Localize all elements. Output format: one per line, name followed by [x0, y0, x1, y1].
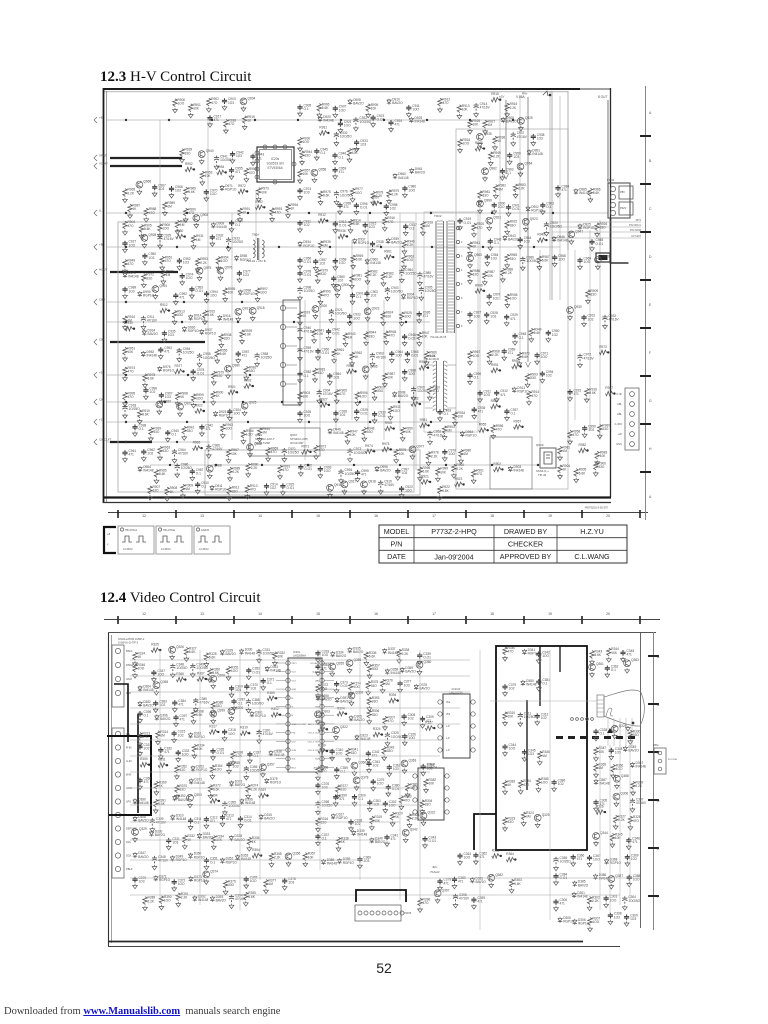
svg-text:1O3: 1O3 — [474, 314, 480, 318]
svg-text:STV9306A: STV9306A — [267, 166, 283, 170]
resistor R922 — [195, 409, 203, 413]
svg-text:1M: 1M — [542, 754, 547, 758]
resistor R398 — [191, 710, 195, 718]
diode D368 — [604, 859, 608, 865]
capacitor C380 — [452, 877, 457, 883]
ground — [468, 380, 473, 385]
ground — [184, 657, 189, 662]
svg-text:R992: R992 — [512, 359, 520, 363]
svg-text:R350: R350 — [140, 757, 148, 761]
ground — [625, 861, 630, 866]
resistor R302 — [271, 713, 279, 717]
transistor Q929 — [518, 118, 525, 125]
ground — [318, 200, 323, 205]
resistor R961 — [332, 349, 336, 357]
svg-text:15: 15 — [316, 612, 320, 616]
ground — [372, 418, 377, 423]
ground — [257, 437, 262, 442]
svg-text:1K: 1K — [180, 395, 185, 399]
diode D923 — [213, 411, 217, 417]
capacitor C366 — [571, 854, 576, 860]
top ruler line schematic 2 — [104, 619, 660, 621]
ruler tick — [349, 510, 351, 518]
svg-text:10K: 10K — [405, 430, 412, 434]
ground — [370, 362, 375, 367]
diode D960 — [365, 259, 369, 265]
ruler tick — [640, 135, 651, 137]
resistor R962 — [350, 352, 354, 360]
resistor R330 — [628, 730, 632, 738]
svg-text:1O2: 1O2 — [339, 413, 345, 417]
diode D955 — [234, 255, 238, 261]
capacitor C952 — [427, 431, 432, 439]
svg-text:2.2K: 2.2K — [128, 191, 135, 195]
junction — [349, 321, 351, 323]
resistor R394 — [210, 799, 218, 803]
svg-text:1O2: 1O2 — [175, 189, 181, 193]
transistor Q378 — [353, 777, 360, 784]
capacitor C904 — [317, 390, 322, 398]
ground — [488, 161, 493, 166]
junction — [429, 481, 431, 483]
junction — [237, 321, 239, 323]
svg-text:BAV2O: BAV2O — [264, 817, 275, 821]
transistor Q963 — [467, 255, 474, 262]
capacitor C989 — [122, 287, 127, 293]
ground — [165, 437, 170, 442]
svg-text:2.2K: 2.2K — [386, 275, 393, 279]
ground — [536, 686, 541, 691]
svg-text:G-IN: G-IN — [126, 759, 132, 763]
diode D338 — [269, 750, 273, 756]
svg-text:5.6K: 5.6K — [159, 472, 166, 476]
svg-text:1O2: 1O2 — [319, 261, 325, 265]
capacitor C346 — [626, 838, 631, 844]
ground — [161, 279, 166, 284]
svg-text:33O: 33O — [224, 336, 231, 340]
capacitor C314 — [238, 816, 243, 822]
resistor R916 — [383, 217, 387, 225]
ground — [316, 355, 321, 360]
resistor R324 — [373, 732, 381, 736]
resistor R930 — [176, 234, 184, 238]
resistor R981 — [244, 367, 248, 375]
svg-text:1OO/5O: 1OO/5O — [526, 259, 538, 263]
capacitor C381 — [536, 679, 541, 685]
resistor R384 — [519, 780, 523, 788]
capacitor C994 — [204, 291, 209, 297]
schematic 1 border right — [610, 88, 612, 497]
svg-text:O.1: O.1 — [356, 295, 361, 299]
capacitor C942 — [488, 239, 493, 245]
junction — [133, 328, 135, 330]
svg-text:47/16V: 47/16V — [480, 106, 491, 110]
svg-text:1OO/5O: 1OO/5O — [252, 701, 264, 705]
svg-text:47O: 47O — [271, 450, 278, 454]
junction — [345, 713, 347, 715]
diode D386 — [593, 874, 597, 880]
svg-text:13: 13 — [200, 514, 204, 518]
svg-text:BAV2O: BAV2O — [226, 652, 237, 656]
right ruler line schematic 1 — [645, 86, 647, 520]
capacitor C997 — [395, 468, 400, 474]
ground — [175, 794, 180, 799]
junction — [184, 678, 186, 680]
resistor R947 — [417, 332, 421, 340]
resistor R986 — [588, 188, 592, 196]
transistor Q342 — [402, 829, 409, 836]
transformer T901 drive — [253, 240, 255, 258]
ground — [333, 113, 338, 118]
svg-text:2.2K: 2.2K — [370, 273, 377, 277]
capacitor C982 — [297, 371, 302, 377]
schematic 1 border top — [103, 88, 580, 90]
svg-text:VC2: VC2 — [292, 741, 297, 743]
ground — [494, 397, 499, 402]
svg-text:47/16V: 47/16V — [164, 237, 175, 241]
svg-text:O.3F: O.3F — [616, 392, 622, 396]
svg-text:1M: 1M — [160, 733, 165, 737]
svg-text:5.6K: 5.6K — [209, 656, 216, 660]
transistor Q921 — [177, 403, 184, 410]
svg-text:2.2K: 2.2K — [518, 187, 525, 191]
svg-text:O.O1: O.O1 — [512, 207, 520, 211]
junction — [380, 202, 382, 204]
resistor R369 — [154, 781, 158, 789]
svg-text:RGP1O: RGP1O — [336, 816, 348, 820]
ground — [355, 401, 360, 406]
capacitor C349 — [190, 663, 195, 671]
svg-text:1OO: 1OO — [215, 768, 222, 772]
svg-text:F-36O: F-36O — [615, 422, 622, 426]
ground — [317, 399, 322, 404]
ground — [316, 776, 321, 781]
svg-text:2.2K: 2.2K — [510, 106, 517, 110]
svg-text:+2: +2 — [99, 418, 103, 422]
svg-text:1OO: 1OO — [405, 489, 412, 493]
svg-text:BLK: BLK — [315, 759, 320, 761]
resistor R389 — [631, 782, 635, 790]
svg-text:471: 471 — [339, 170, 345, 174]
ruler tick — [648, 799, 659, 801]
svg-text:1OO: 1OO — [260, 291, 267, 295]
ground — [313, 314, 318, 319]
svg-text:Q930: Q930 — [574, 305, 582, 309]
svg-text:5: 5 — [461, 283, 463, 286]
transistor Q900 — [334, 284, 341, 291]
capacitor C328 — [593, 729, 598, 735]
resistor R940 — [402, 240, 406, 248]
svg-text:Q925: Q925 — [249, 401, 257, 405]
diode D381 — [470, 877, 474, 883]
svg-text:1O3: 1O3 — [243, 273, 249, 277]
transistor Q909 output block — [490, 437, 532, 489]
resistor R910 — [428, 387, 432, 395]
capacitor C369 — [625, 854, 630, 860]
resistor R917 — [605, 391, 613, 395]
ground — [208, 678, 213, 683]
svg-text:46T1: 46T1 — [636, 219, 642, 222]
ground — [195, 489, 200, 494]
ground — [423, 843, 428, 848]
svg-text:5.6K: 5.6K — [220, 352, 227, 356]
svg-text:R974: R974 — [365, 444, 373, 448]
svg-text:1OO: 1OO — [164, 899, 171, 903]
svg-text:R317: R317 — [209, 724, 217, 728]
resistor R374 — [246, 785, 250, 793]
resistor R358 — [316, 767, 320, 775]
svg-text:1O/25O: 1O/25O — [181, 466, 193, 470]
svg-text:7VA-02+25.I B: 7VA-02+25.I B — [430, 336, 446, 339]
svg-text:10K: 10K — [611, 651, 618, 655]
svg-text:10K: 10K — [473, 123, 480, 127]
ground — [421, 821, 426, 826]
capacitor C379 — [437, 879, 442, 885]
capacitor C910 — [229, 220, 234, 226]
svg-text:10K: 10K — [615, 836, 622, 840]
diode D316 — [188, 732, 192, 738]
ground — [358, 864, 363, 869]
ground — [417, 318, 422, 323]
svg-text:1K: 1K — [216, 394, 221, 398]
svg-text:IC3Os: IC3Os — [293, 650, 301, 654]
ground — [230, 158, 235, 163]
resistor R307 — [383, 716, 387, 724]
resistor R327 — [425, 726, 433, 730]
ground — [141, 456, 146, 461]
diode D375 — [265, 778, 269, 784]
svg-text:1K: 1K — [355, 355, 360, 359]
wire bus — [130, 675, 470, 677]
capacitor C376 — [315, 783, 320, 789]
svg-text:1OO: 1OO — [610, 898, 617, 902]
ground — [245, 494, 250, 499]
transistor Q928 — [141, 235, 148, 242]
resistor R340 — [503, 647, 507, 655]
ground — [594, 841, 599, 846]
svg-text:E: E — [649, 303, 652, 307]
transistor Q975 — [196, 267, 203, 274]
svg-text:R902: R902 — [493, 462, 501, 466]
ground — [232, 706, 237, 711]
svg-text:L3-3KO2: L3-3KO2 — [161, 548, 171, 551]
wire bus — [106, 374, 300, 376]
svg-text:47O: 47O — [128, 224, 135, 228]
svg-text:1OO: 1OO — [225, 427, 232, 431]
junction — [279, 714, 281, 716]
resistor R316 — [316, 818, 320, 826]
svg-text:DRAWED BY: DRAWED BY — [504, 527, 547, 536]
ground — [546, 337, 551, 342]
svg-text:A: A — [649, 111, 652, 115]
diode D920 — [318, 116, 322, 122]
svg-text:R901: R901 — [228, 385, 236, 389]
ground — [417, 670, 422, 675]
svg-text:LM12O3TA: LM12O3TA — [449, 690, 462, 694]
ground — [333, 801, 338, 806]
capacitor C903 — [385, 287, 390, 295]
node C8O — [94, 299, 97, 305]
junction — [176, 441, 178, 443]
ground — [468, 129, 473, 134]
ground — [611, 774, 616, 779]
ground — [123, 401, 128, 406]
wire bus — [130, 839, 380, 841]
ground — [298, 147, 303, 152]
resistor R327 — [614, 815, 618, 823]
svg-text:O.1: O.1 — [506, 171, 511, 175]
resistor R912 — [318, 219, 326, 223]
wire bus — [130, 787, 420, 789]
ground — [247, 846, 252, 851]
capacitor C973 — [347, 448, 352, 456]
svg-text:R912: R912 — [160, 303, 168, 307]
resistor R945 — [258, 428, 262, 436]
ground — [314, 156, 319, 161]
svg-text:1OO: 1OO — [186, 276, 193, 280]
ground — [316, 671, 321, 676]
svg-text:R930: R930 — [176, 229, 184, 233]
ruler tick — [117, 510, 119, 518]
svg-text:47/16V: 47/16V — [384, 483, 395, 487]
diode D329 — [220, 650, 224, 656]
ground — [531, 141, 536, 146]
ground — [192, 754, 197, 759]
resistor R963 — [158, 447, 162, 455]
resistor R974 — [123, 367, 127, 375]
svg-text:1O/25O: 1O/25O — [232, 240, 244, 244]
ground — [367, 706, 372, 711]
ground — [597, 434, 602, 439]
diode D359 — [400, 667, 404, 673]
svg-text:D: D — [649, 255, 652, 259]
ground — [505, 416, 510, 421]
capacitor C399 — [333, 794, 338, 800]
svg-text:1OO/5O: 1OO/5O — [391, 290, 403, 294]
svg-text:BAV2O: BAV2O — [476, 880, 487, 884]
ground — [438, 886, 443, 891]
capacitor C932 — [210, 235, 215, 241]
wire bus — [106, 119, 525, 121]
junction — [431, 246, 433, 248]
ground — [426, 461, 431, 466]
ground — [513, 193, 518, 198]
ground — [536, 787, 541, 792]
ground — [362, 489, 367, 494]
capacitor C921 — [329, 309, 334, 317]
svg-text:MODEL: MODEL — [384, 527, 410, 536]
capacitor C974 — [180, 273, 185, 279]
svg-text:33O: 33O — [187, 429, 194, 433]
svg-text:O.O1: O.O1 — [408, 337, 416, 341]
svg-text:IN4148: IN4148 — [143, 688, 154, 692]
svg-text:SCN: SCN — [292, 750, 297, 752]
svg-text:R351: R351 — [158, 758, 166, 762]
diode D330 — [239, 649, 243, 655]
capacitor C995 — [355, 470, 360, 476]
svg-text:10K: 10K — [487, 274, 494, 278]
wire vertical — [159, 120, 161, 250]
junction — [247, 212, 249, 214]
transistor Q397 — [434, 890, 441, 897]
svg-text:Q388: Q388 — [621, 774, 629, 778]
svg-text:10K: 10K — [422, 335, 429, 339]
ground — [211, 711, 216, 716]
svg-text:1O2: 1O2 — [304, 223, 310, 227]
capacitor C301 — [367, 800, 372, 806]
svg-text:1OO: 1OO — [344, 124, 351, 128]
svg-text:RGP1O: RGP1O — [303, 244, 315, 248]
resistor R939 — [149, 427, 153, 435]
connector P903 side pins — [625, 388, 639, 450]
svg-text:Q917: Q917 — [349, 479, 357, 483]
resistor R952 — [185, 167, 193, 171]
resistor R967 — [537, 256, 541, 264]
ground — [298, 195, 303, 200]
ground — [603, 324, 608, 329]
junction — [393, 427, 395, 429]
svg-text:1OO: 1OO — [432, 389, 439, 393]
ground — [173, 300, 178, 305]
ground — [214, 165, 219, 170]
svg-text:2.2K: 2.2K — [456, 467, 463, 471]
resistor R364 — [506, 857, 514, 861]
junction — [307, 464, 309, 466]
transistor Q356 — [346, 660, 353, 667]
ground — [468, 360, 473, 365]
svg-text:1O3: 1O3 — [233, 764, 239, 768]
resistor R906 — [317, 104, 321, 112]
op-amp IC3O2 — [443, 694, 470, 758]
ground — [346, 757, 351, 762]
ground — [176, 902, 181, 907]
junction — [613, 392, 615, 394]
ground — [417, 660, 422, 665]
ground — [172, 458, 177, 463]
svg-text:x: x — [107, 542, 109, 546]
capacitor C901 — [350, 293, 355, 299]
capacitor C979 — [442, 449, 447, 455]
junction — [125, 374, 127, 376]
wire vertical — [335, 213, 337, 430]
diode D335 — [229, 835, 233, 841]
svg-text:Q923: Q923 — [530, 217, 538, 221]
svg-text:5.6K: 5.6K — [323, 194, 330, 198]
ground — [227, 769, 232, 774]
ground — [384, 211, 389, 216]
wire heavy — [110, 271, 178, 273]
svg-text:471: 471 — [423, 314, 429, 318]
capacitor C307 — [630, 798, 635, 806]
ground — [348, 228, 353, 233]
ground — [478, 397, 483, 402]
ground — [500, 175, 505, 180]
svg-text:1O3: 1O3 — [158, 187, 164, 191]
ground — [522, 756, 527, 761]
wire vertical — [589, 230, 591, 430]
svg-text:Q935: Q935 — [484, 132, 492, 136]
ground — [405, 793, 410, 798]
svg-text:O.O1: O.O1 — [304, 273, 312, 277]
svg-text:47/16V: 47/16V — [156, 821, 167, 825]
svg-text:33O: 33O — [510, 223, 517, 227]
ground — [133, 837, 138, 842]
svg-text:1O3: 1O3 — [491, 257, 497, 261]
svg-text:IN4148: IN4148 — [360, 737, 371, 741]
wire vertical — [359, 650, 361, 880]
resistor R981 — [350, 275, 354, 283]
ground — [227, 416, 232, 421]
